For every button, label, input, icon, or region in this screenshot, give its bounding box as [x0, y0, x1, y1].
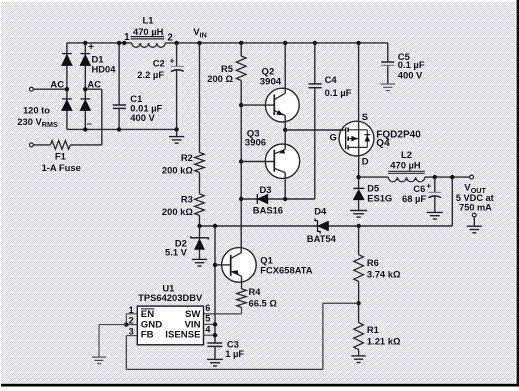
wire bridge right leg	[84, 43, 86, 129]
svg-text:200 kΩ: 200 kΩ	[162, 206, 193, 217]
terminal VOUT return	[472, 213, 476, 217]
terminal VOUT	[470, 175, 474, 179]
body diode of Q4	[366, 130, 368, 148]
transistor Q4 FQD2P40 MOSFET	[339, 121, 374, 156]
svg-text:R2: R2	[181, 152, 193, 163]
svg-text:C2: C2	[153, 57, 165, 68]
node EN/GND tie	[124, 322, 128, 326]
svg-text:120 to: 120 to	[23, 104, 50, 115]
wire node row to D4 and VOUT riser	[200, 225, 453, 227]
wire R5 bottom / Q2 base / Q3 base / D3 vertical	[240, 81, 242, 254]
svg-text:R4: R4	[249, 286, 262, 297]
node AC top junction	[65, 87, 69, 91]
wire bottom rail of bridge to ground	[67, 128, 177, 130]
op-amp U1 TPS64203DBV controller box	[137, 306, 203, 345]
svg-text:5 VDC at: 5 VDC at	[456, 193, 494, 203]
diode bridge D1 top-right	[80, 54, 90, 66]
wire R3 to node row	[199, 215, 201, 226]
node Q2/Q3 emitter junction	[283, 128, 287, 132]
svg-text:3906: 3906	[245, 137, 266, 148]
wire VOUT riser	[451, 177, 453, 226]
capacitor C4 0.1uF	[313, 41, 317, 45]
wire R6 to FB node	[358, 281, 360, 322]
node FB divider	[356, 301, 360, 305]
svg-text:200 kΩ: 200 kΩ	[162, 165, 193, 176]
ground under C5	[380, 84, 395, 91]
svg-text:6: 6	[205, 303, 210, 313]
svg-text:66.5 Ω: 66.5 Ω	[249, 298, 278, 309]
svg-text:L2: L2	[401, 149, 412, 160]
resistor R6 3.74k	[358, 226, 360, 255]
capacitor C3 1uF	[207, 343, 222, 346]
inductor L2 470uH	[388, 177, 425, 182]
node bridge + output	[83, 41, 87, 45]
pin 2 GND stub	[126, 324, 137, 326]
resistor R2 200k	[195, 153, 205, 173]
node VIN	[197, 41, 201, 45]
pin 4 ISENSE stub	[204, 334, 216, 336]
svg-text:1.21 kΩ: 1.21 kΩ	[367, 336, 401, 347]
svg-text:1-A Fuse: 1-A Fuse	[42, 162, 81, 173]
wire Q4 source from rail / drain to node	[356, 41, 360, 45]
svg-text:C4: C4	[325, 74, 338, 85]
pin 3 FB stub	[126, 335, 137, 337]
svg-text:4: 4	[205, 325, 211, 335]
diode D4 BAT54	[315, 218, 320, 233]
svg-text:1 µF: 1 µF	[225, 348, 244, 359]
svg-text:D4: D4	[314, 205, 327, 216]
svg-text:200 Ω: 200 Ω	[207, 73, 233, 84]
ground under C3	[207, 359, 223, 366]
ground under D5	[350, 211, 367, 218]
pin 1 EN stub	[126, 313, 137, 315]
resistor R1 1.21k	[354, 323, 364, 350]
svg-text:R6: R6	[367, 257, 379, 268]
ground under VOUT return	[473, 217, 475, 226]
svg-text:68 µF: 68 µF	[402, 193, 426, 204]
resistor R3 200k	[195, 194, 205, 216]
resistor R4 66.5 ohm	[237, 289, 247, 307]
diode bridge D1 HD04 top-left	[62, 54, 72, 66]
svg-text:2: 2	[167, 32, 173, 43]
svg-text:+: +	[170, 55, 175, 65]
svg-text:R1: R1	[367, 324, 379, 335]
svg-text:470 µH: 470 µH	[390, 160, 421, 171]
wire AC right to fuse	[85, 88, 102, 90]
node AC right junction	[83, 87, 87, 91]
node C2 bottom / ground	[174, 127, 178, 131]
capacitor C2 2.2uF	[176, 43, 178, 66]
svg-text:TPS64203DBV: TPS64203DBV	[138, 292, 203, 303]
ground under EN/GND	[92, 357, 106, 364]
wire GND tie to ground	[99, 324, 126, 326]
node Q1 base	[213, 263, 217, 267]
node bridge - output	[83, 127, 87, 131]
diode D2 zener 5.1V	[199, 226, 201, 239]
diode D5 ES1G	[358, 177, 360, 188]
ground under C2	[176, 129, 178, 136]
svg-text:BAT54: BAT54	[307, 233, 337, 244]
capacitor C6 68uF	[434, 177, 436, 192]
wire Q1 emitter to R4	[241, 276, 243, 289]
ground under D2	[192, 259, 207, 266]
node Q4 drain / D5 / L2	[356, 175, 360, 179]
svg-text:Q4: Q4	[376, 138, 390, 149]
svg-text:+: +	[426, 180, 431, 190]
svg-text:400 V: 400 V	[130, 112, 155, 123]
svg-text:470 µH: 470 µH	[133, 26, 164, 37]
svg-text:ISENSE: ISENSE	[165, 330, 201, 341]
svg-text:ES1G: ES1G	[367, 193, 392, 204]
svg-text:3: 3	[129, 326, 134, 336]
svg-text:–: –	[87, 119, 93, 130]
ground under R1	[351, 356, 365, 363]
svg-text:750 mA: 750 mA	[459, 203, 492, 213]
svg-text:AC: AC	[87, 79, 101, 90]
diode bridge D1 bottom-right	[80, 99, 90, 110]
inductor L1 470uH	[122, 41, 126, 45]
wire drain node to L2	[359, 176, 389, 178]
svg-text:FB: FB	[141, 330, 154, 341]
svg-text:S: S	[362, 111, 368, 122]
pin 5 VIN stub	[204, 323, 216, 325]
wire fuse to bottom terminal	[33, 144, 50, 146]
wire C5 drop from rail	[387, 43, 389, 61]
svg-text:5.1 V: 5.1 V	[165, 247, 188, 258]
transistor Q3 3906	[265, 144, 299, 178]
transistor Q1 FCX658ATA	[222, 248, 257, 283]
wire node row down to Q1 base / VIN / ISENSE / C3	[214, 226, 216, 343]
svg-text:G: G	[330, 131, 337, 142]
resistor R5 200 ohm	[239, 41, 243, 45]
svg-text:R3: R3	[181, 194, 193, 205]
svg-text:L1: L1	[143, 15, 154, 26]
transistor Q2 3904	[265, 88, 299, 122]
svg-text:0.1 µF: 0.1 µF	[325, 87, 352, 98]
svg-text:2: 2	[129, 315, 134, 325]
svg-text:HD04: HD04	[92, 64, 117, 75]
svg-text:400 V: 400 V	[398, 69, 423, 80]
svg-text:AC: AC	[50, 79, 64, 90]
svg-text:FCX658ATA: FCX658ATA	[260, 264, 312, 275]
capacitor C5 0.1uF 400V	[381, 61, 394, 63]
terminal AC top	[30, 87, 34, 91]
svg-text:2.2 µF: 2.2 µF	[137, 69, 164, 80]
svg-text:+: +	[88, 42, 94, 53]
wire AC top input	[33, 88, 67, 90]
svg-text:BAS16: BAS16	[253, 205, 283, 216]
wire top VIN rail	[67, 42, 132, 44]
wire R2 to R3	[199, 173, 201, 194]
svg-text:3.74 kΩ: 3.74 kΩ	[367, 269, 401, 280]
wire FB feedback loop	[125, 336, 127, 370]
svg-text:5: 5	[205, 314, 210, 324]
terminal AC bottom	[30, 143, 34, 147]
wire VIN down to R2	[199, 43, 201, 153]
wire R4 bottom to SW pin	[241, 307, 243, 314]
wire bridge left leg	[66, 43, 68, 129]
svg-text:3904: 3904	[260, 77, 282, 88]
svg-text:D: D	[362, 155, 369, 166]
fuse F1	[50, 141, 70, 150]
wire R1 to ground	[358, 350, 360, 356]
wire Q2/Q3 node to Q4 gate	[285, 129, 346, 131]
wire L2 to VOUT terminal	[425, 176, 470, 178]
diode D3 BAS16	[241, 198, 315, 200]
capacitor C1 0.01uF 400V	[118, 43, 120, 105]
ground under C6	[427, 212, 443, 219]
svg-text:D3: D3	[260, 184, 272, 195]
svg-text:F1: F1	[55, 151, 66, 162]
svg-text:1: 1	[124, 32, 130, 43]
diode bridge D1 bottom-left	[62, 99, 72, 110]
